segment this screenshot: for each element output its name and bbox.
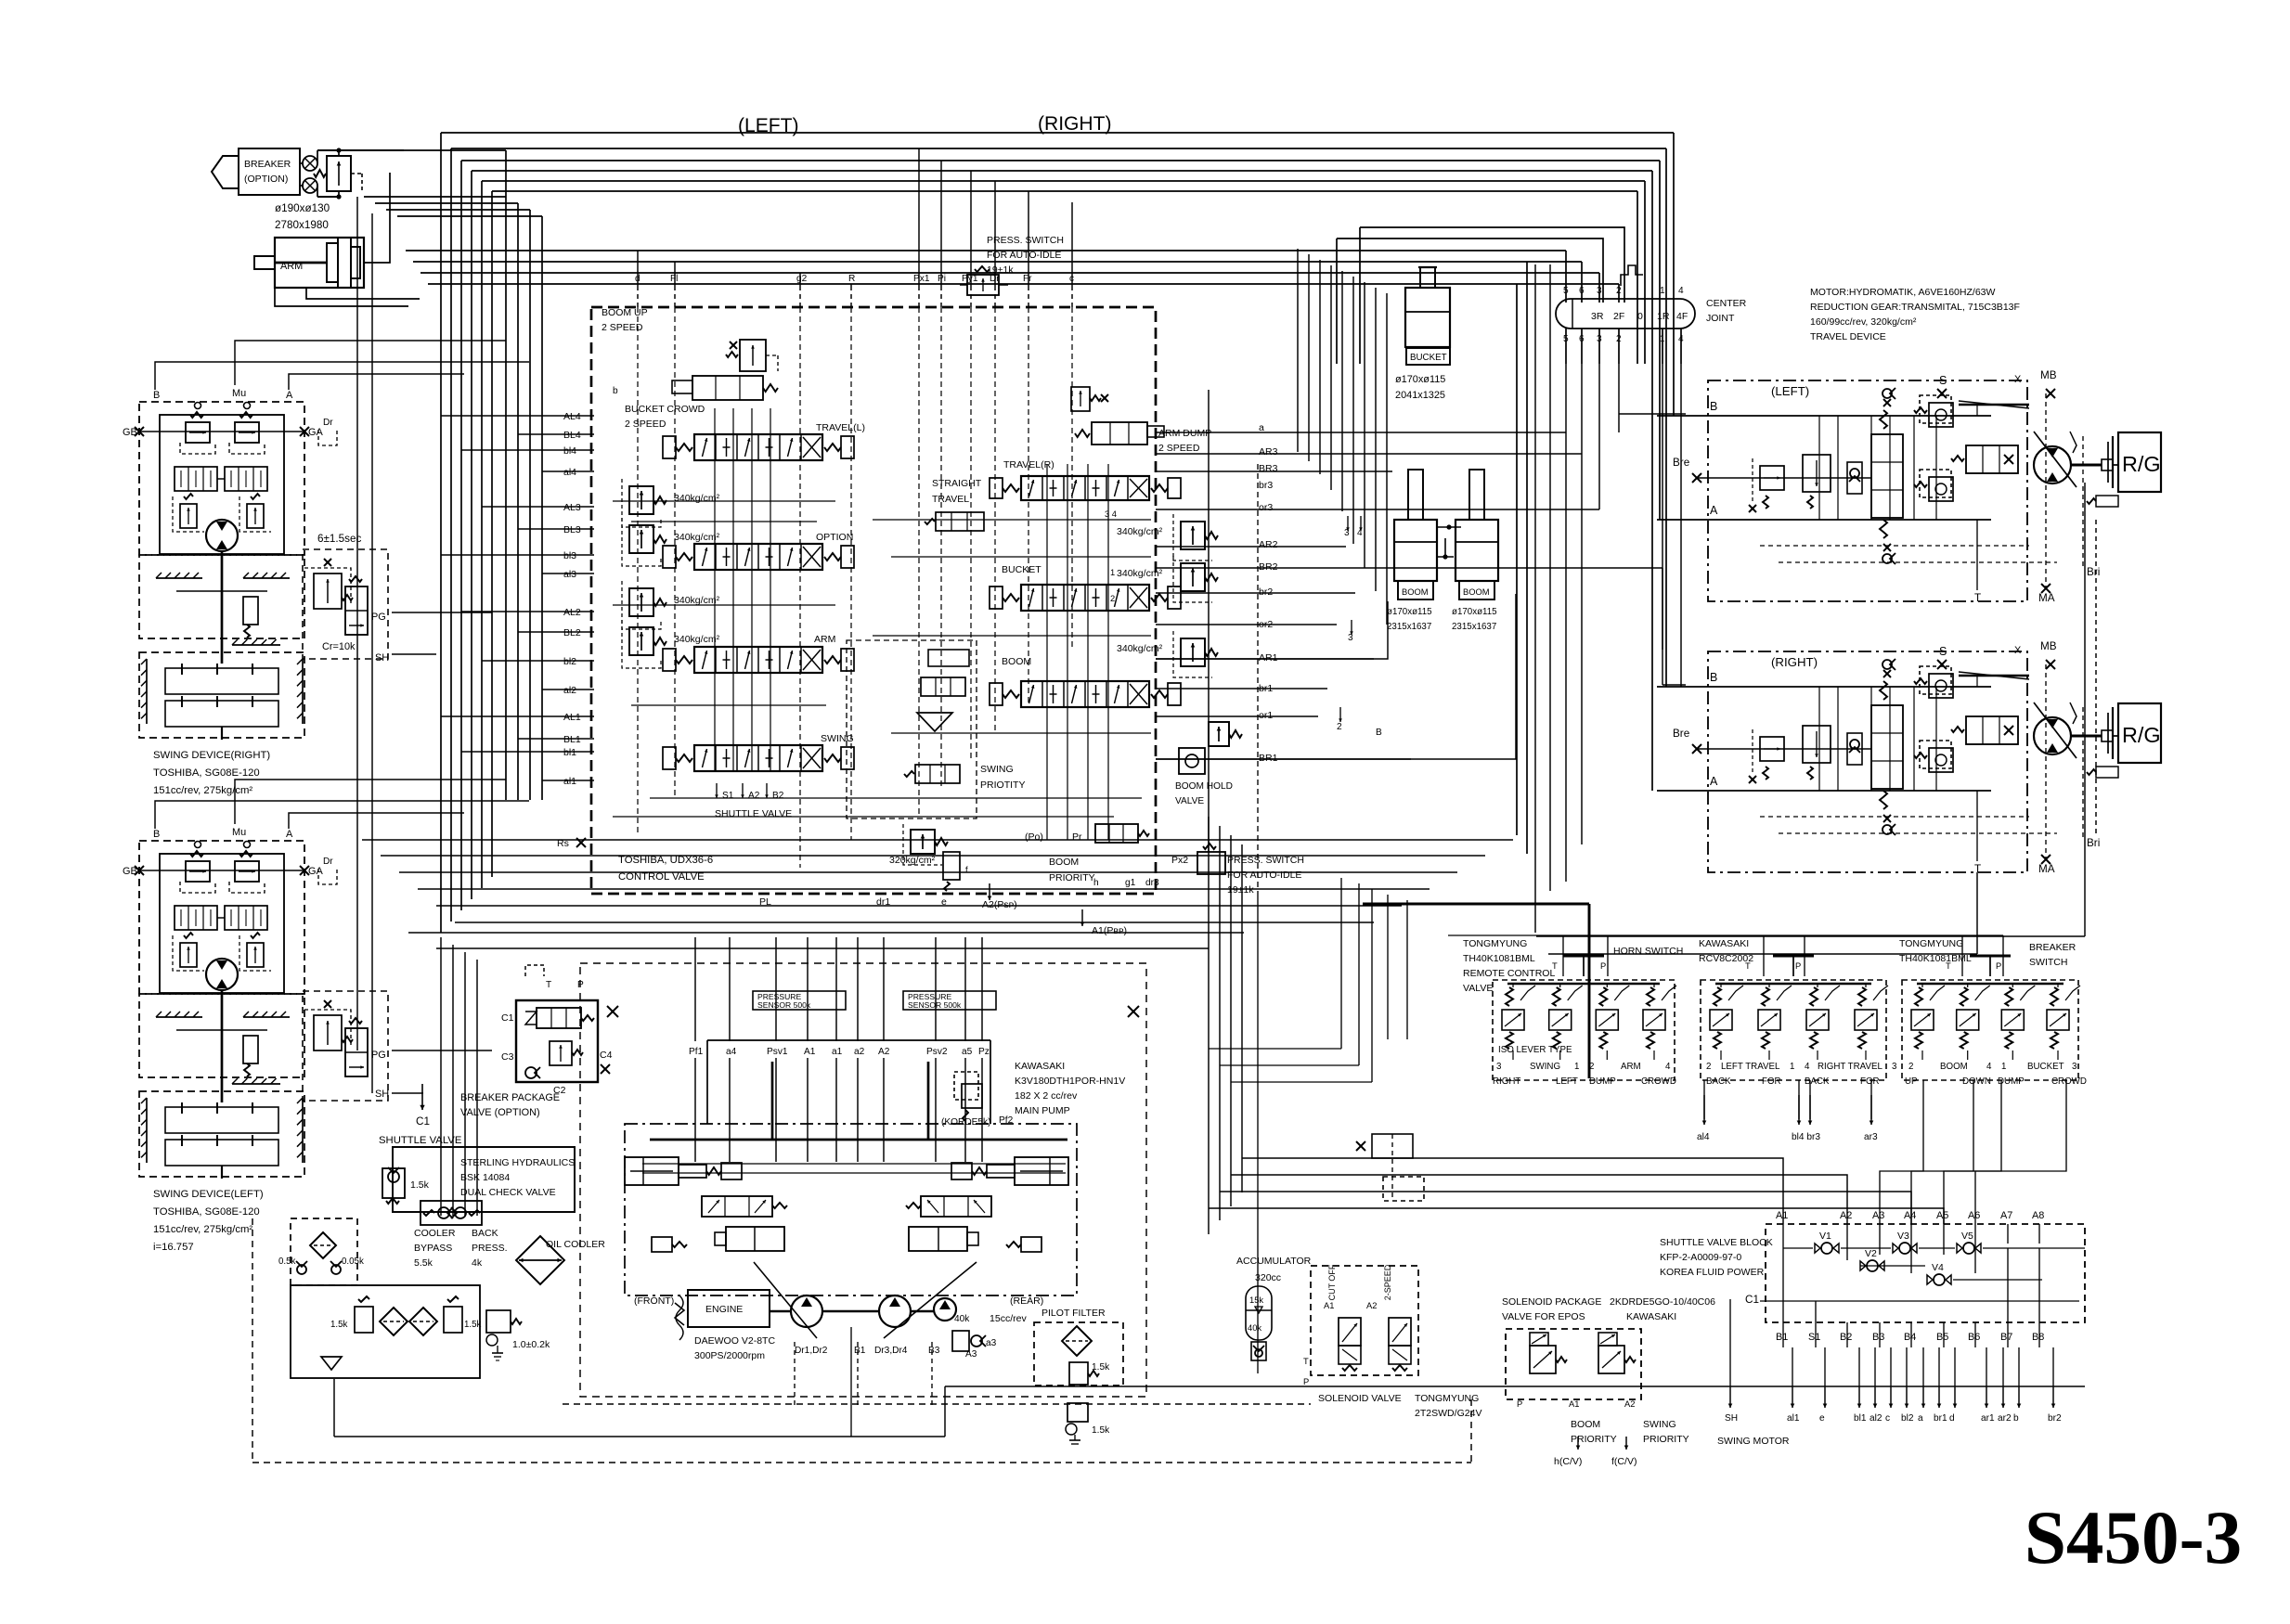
wire bundle upper-mid horizontals <box>406 250 1566 251</box>
svg-text:al1: al1 <box>563 776 576 787</box>
svg-text:or3: or3 <box>1259 502 1273 513</box>
svg-text:2 SPEED: 2 SPEED <box>1158 443 1200 454</box>
svg-text:bl3: bl3 <box>563 550 576 561</box>
wires center to rcv connectors <box>1209 1048 1341 1050</box>
svg-text:al3: al3 <box>563 569 576 580</box>
svg-text:BUCKET CROWD: BUCKET CROWD <box>625 404 705 415</box>
boom priority valve2 <box>1095 824 1138 843</box>
svg-text:4: 4 <box>1665 1062 1671 1072</box>
svg-text:0.05k: 0.05k <box>342 1257 364 1267</box>
svg-text:MA: MA <box>2038 863 2055 875</box>
svg-text:1.0±0.2k: 1.0±0.2k <box>512 1339 550 1350</box>
svg-text:PRIORITY: PRIORITY <box>1049 872 1095 883</box>
svg-text:AL4: AL4 <box>563 411 581 422</box>
svg-text:S1: S1 <box>1808 1332 1820 1343</box>
svg-text:KAWASAKI: KAWASAKI <box>1699 938 1749 949</box>
boom cylinder 2 <box>1456 520 1498 581</box>
svg-text:A: A <box>286 829 293 840</box>
svg-text:Mu: Mu <box>232 388 246 399</box>
svg-text:PRESS.: PRESS. <box>472 1243 508 1254</box>
svg-text:A1: A1 <box>1569 1399 1579 1409</box>
wire bundle top horizontals <box>441 132 1674 134</box>
svg-text:a3: a3 <box>986 1338 997 1348</box>
svg-text:TRAVEL(L): TRAVEL(L) <box>816 422 865 433</box>
svg-text:MA: MA <box>2038 592 2055 604</box>
svg-text:f(C/V): f(C/V) <box>1611 1456 1637 1467</box>
svg-text:T: T <box>1303 1357 1309 1366</box>
svg-text:e: e <box>1819 1413 1825 1424</box>
svg-text:T: T <box>1552 961 1558 971</box>
svg-text:T: T <box>546 980 551 990</box>
pump port box <box>707 1039 990 1041</box>
svg-text:bl2: bl2 <box>563 656 576 667</box>
svg-text:151cc/rev, 275kg/cm²: 151cc/rev, 275kg/cm² <box>153 785 252 796</box>
svg-text:B1: B1 <box>854 1346 866 1356</box>
svg-text:3 4: 3 4 <box>1105 509 1117 519</box>
svg-text:UP: UP <box>1905 1076 1918 1087</box>
svg-text:ARM: ARM <box>1621 1062 1641 1072</box>
wires pump port verticals <box>694 937 696 1041</box>
svg-text:15k: 15k <box>1249 1295 1263 1305</box>
svg-text:Bre: Bre <box>1673 728 1689 740</box>
svg-text:1: 1 <box>1660 286 1665 296</box>
svg-text:Dr: Dr <box>323 418 333 428</box>
swing priority valves <box>921 677 965 696</box>
svg-text:2 SPEED: 2 SPEED <box>625 419 666 430</box>
svg-text:T: T <box>1946 961 1951 971</box>
svg-text:AL2: AL2 <box>563 607 581 618</box>
svg-text:B: B <box>153 829 160 840</box>
svg-text:6±1.5sec: 6±1.5sec <box>317 533 362 545</box>
svg-text:SH: SH <box>375 1089 389 1100</box>
svg-text:1: 1 <box>1110 568 1115 577</box>
svg-text:Bri: Bri <box>2087 837 2100 849</box>
svg-text:A2: A2 <box>1624 1399 1635 1409</box>
svg-text:BL3: BL3 <box>563 524 581 535</box>
travel device (RIGHT) <box>1708 651 2027 872</box>
svg-text:1.5k: 1.5k <box>410 1179 430 1191</box>
svg-text:(RIGHT): (RIGHT) <box>1038 113 1112 135</box>
svg-text:B4: B4 <box>1904 1332 1916 1343</box>
svg-text:SWING: SWING <box>1530 1062 1560 1072</box>
svg-text:R/G: R/G <box>2122 723 2161 747</box>
svg-text:KAWASAKI: KAWASAKI <box>1015 1061 1065 1072</box>
svg-text:2041x1325: 2041x1325 <box>1395 390 1445 401</box>
svg-text:CONTROL VALVE: CONTROL VALVE <box>618 871 705 883</box>
svg-text:BUCKET: BUCKET <box>1410 353 1447 363</box>
svg-text:182 X 2 cc/rev: 182 X 2 cc/rev <box>1015 1090 1078 1102</box>
svg-text:ISO LEVER TYPE: ISO LEVER TYPE <box>1498 1045 1572 1055</box>
svg-text:BOOM: BOOM <box>1402 587 1429 597</box>
arm cylinder wires <box>364 173 390 263</box>
svg-text:TONGMYUNG: TONGMYUNG <box>1415 1393 1479 1404</box>
svg-text:SWING: SWING <box>1643 1419 1676 1430</box>
svg-text:b: b <box>2013 1413 2019 1424</box>
svg-text:A: A <box>1710 775 1718 788</box>
straight travel valve <box>936 512 984 531</box>
svg-text:3: 3 <box>1597 286 1602 296</box>
svg-text:3: 3 <box>2072 1062 2077 1072</box>
svg-text:2: 2 <box>1337 722 1342 732</box>
R/G box right <box>2118 703 2161 763</box>
svg-text:3: 3 <box>1348 633 1353 643</box>
svg-text:A2: A2 <box>1366 1301 1377 1310</box>
svg-text:al2: al2 <box>1870 1413 1882 1424</box>
wires shuttle block bottom <box>1782 1322 1784 1347</box>
svg-text:300PS/2000rpm: 300PS/2000rpm <box>694 1350 765 1361</box>
svg-text:BOOM: BOOM <box>1002 656 1031 667</box>
svg-text:bl1: bl1 <box>563 747 576 758</box>
svg-text:X: X <box>2014 645 2022 656</box>
svg-text:CROWD: CROWD <box>2051 1076 2087 1087</box>
svg-text:BOOM HOLD: BOOM HOLD <box>1175 781 1233 792</box>
svg-text:br3: br3 <box>1259 480 1273 491</box>
R/G box left <box>2118 432 2161 492</box>
svg-text:SH: SH <box>375 652 389 664</box>
svg-text:BL1: BL1 <box>563 734 581 745</box>
svg-text:BR2: BR2 <box>1259 561 1278 573</box>
svg-text:320cc: 320cc <box>1255 1272 1281 1283</box>
svg-text:BYPASS: BYPASS <box>414 1243 452 1254</box>
svg-text:2: 2 <box>1616 286 1622 296</box>
svg-text:3: 3 <box>1892 1062 1896 1072</box>
svg-text:a5: a5 <box>962 1047 973 1057</box>
svg-text:PRESS. SWITCH: PRESS. SWITCH <box>1227 855 1304 866</box>
breaker (option) box <box>239 148 300 195</box>
svg-text:BL4: BL4 <box>563 430 581 441</box>
svg-text:4: 4 <box>1357 528 1363 538</box>
svg-text:340kg/cm²: 340kg/cm² <box>1117 643 1163 654</box>
svg-text:C1: C1 <box>501 1012 514 1024</box>
svg-text:BACK: BACK <box>472 1228 498 1239</box>
svg-text:T: T <box>1745 961 1751 971</box>
svg-text:P: P <box>1600 961 1606 971</box>
svg-text:B3: B3 <box>1872 1332 1884 1343</box>
svg-text:a1: a1 <box>832 1047 843 1057</box>
svg-text:SWITCH: SWITCH <box>2029 957 2067 968</box>
svg-text:(REAR): (REAR) <box>1010 1295 1043 1307</box>
svg-text:BUCKET: BUCKET <box>1002 564 1041 575</box>
svg-text:bl4: bl4 <box>563 445 576 457</box>
svg-text:B8: B8 <box>2032 1332 2044 1343</box>
svg-text:Fr: Fr <box>1023 274 1032 284</box>
svg-text:g2: g2 <box>796 274 808 284</box>
svg-text:3: 3 <box>1496 1062 1501 1072</box>
pump circle 2 <box>879 1295 911 1327</box>
breaker gauge circles <box>303 156 317 171</box>
svg-text:Pf2: Pf2 <box>999 1115 1014 1126</box>
svg-text:CENTER: CENTER <box>1706 298 1747 309</box>
svg-text:Pz: Pz <box>978 1047 990 1057</box>
suction box <box>291 1285 480 1378</box>
front pump regulator <box>625 1157 679 1185</box>
solenoid valve box <box>1311 1266 1418 1375</box>
svg-text:T: T <box>1974 592 1981 604</box>
svg-text:340kg/cm²: 340kg/cm² <box>1117 526 1163 537</box>
svg-text:P: P <box>1996 961 2001 971</box>
svg-text:br2: br2 <box>1259 586 1273 598</box>
svg-text:SENSOR 500k: SENSOR 500k <box>908 1000 962 1010</box>
wires left bundle to valve ports <box>441 415 594 417</box>
svg-text:B6: B6 <box>1968 1332 1980 1343</box>
svg-text:b: b <box>613 386 618 396</box>
wires control valve to right <box>1156 432 1566 433</box>
wires swing device tops <box>155 362 529 390</box>
rcv2 cluster <box>1701 980 1886 1080</box>
svg-text:C3: C3 <box>501 1051 514 1063</box>
svg-text:5.5k: 5.5k <box>414 1257 433 1269</box>
svg-text:VALVE (OPTION): VALVE (OPTION) <box>460 1107 540 1118</box>
svg-text:BR3: BR3 <box>1259 463 1278 474</box>
svg-text:AL1: AL1 <box>563 712 581 723</box>
svg-text:A: A <box>1710 504 1718 517</box>
svg-text:SH: SH <box>1725 1413 1738 1424</box>
svg-text:A3: A3 <box>1872 1210 1884 1221</box>
svg-text:S: S <box>1939 645 1947 658</box>
svg-text:g1: g1 <box>1125 878 1136 888</box>
svg-text:3R: 3R <box>1591 311 1604 322</box>
320kg relief <box>911 830 935 854</box>
svg-text:40k: 40k <box>1248 1323 1261 1333</box>
svg-text:6: 6 <box>1579 286 1585 296</box>
svg-text:340kg/cm²: 340kg/cm² <box>674 595 720 606</box>
svg-text:340kg/cm²: 340kg/cm² <box>674 634 720 645</box>
svg-text:2 SPEED: 2 SPEED <box>602 322 643 333</box>
svg-text:al2: al2 <box>563 685 576 696</box>
wires below center joint <box>1565 329 1567 882</box>
svg-text:SOLENOID PACKAGE: SOLENOID PACKAGE <box>1502 1296 1601 1308</box>
svg-text:B: B <box>1710 400 1717 413</box>
wires cv ports to top bundle <box>637 251 639 286</box>
svg-text:3: 3 <box>1344 528 1350 538</box>
svg-text:MB: MB <box>2040 369 2057 381</box>
svg-text:CUT OFF: CUT OFF <box>1327 1264 1337 1300</box>
svg-text:a4: a4 <box>726 1047 737 1057</box>
prop valve boom <box>1530 1333 1548 1346</box>
svg-text:SWING DEVICE(LEFT): SWING DEVICE(LEFT) <box>153 1189 264 1200</box>
svg-text:ACCUMULATOR: ACCUMULATOR <box>1236 1256 1312 1267</box>
svg-text:A2: A2 <box>878 1047 890 1057</box>
pilot relief <box>952 1331 969 1351</box>
svg-text:A1: A1 <box>804 1047 816 1057</box>
svg-text:BACK: BACK <box>1706 1076 1731 1087</box>
control valve interior wires <box>637 307 639 835</box>
center joint <box>1556 299 1695 329</box>
svg-text:Dr: Dr <box>323 857 333 867</box>
svg-text:GA: GA <box>308 427 323 438</box>
svg-text:(LEFT): (LEFT) <box>1771 384 1809 398</box>
svg-text:A8: A8 <box>2032 1210 2044 1221</box>
svg-text:REMOTE CONTROL: REMOTE CONTROL <box>1463 968 1555 979</box>
svg-text:1R: 1R <box>1657 311 1670 322</box>
arm dump relief <box>1071 387 1090 411</box>
pilot pump <box>934 1298 956 1321</box>
svg-text:B2: B2 <box>772 791 784 801</box>
rear pump regulator <box>906 1157 1068 1252</box>
svg-text:ø170xø115: ø170xø115 <box>1395 374 1445 385</box>
svg-text:i=16.757: i=16.757 <box>153 1242 194 1253</box>
svg-text:Px1: Px1 <box>913 274 930 284</box>
svg-text:B3: B3 <box>928 1346 940 1356</box>
svg-text:al4: al4 <box>1697 1132 1710 1142</box>
svg-text:h(C/V): h(C/V) <box>1554 1456 1582 1467</box>
right bank port relief valves <box>1181 522 1205 549</box>
svg-text:BACK: BACK <box>1805 1076 1830 1087</box>
svg-text:V1: V1 <box>1819 1231 1831 1242</box>
svg-text:2: 2 <box>1110 594 1115 603</box>
svg-text:SHUTTLE VALVE: SHUTTLE VALVE <box>379 1135 462 1146</box>
svg-text:(RIGHT): (RIGHT) <box>1771 655 1818 669</box>
svg-text:5: 5 <box>1563 286 1569 296</box>
svg-text:FOR: FOR <box>1762 1076 1781 1087</box>
svg-text:JOINT: JOINT <box>1706 313 1735 324</box>
sterling dual check box <box>393 1147 575 1212</box>
svg-text:A: A <box>286 390 293 401</box>
svg-text:BSK 14084: BSK 14084 <box>460 1172 510 1183</box>
svg-text:a2: a2 <box>854 1047 865 1057</box>
svg-text:SWING MOTOR: SWING MOTOR <box>1717 1436 1790 1447</box>
svg-text:K3V180DTH1POR-HN1V: K3V180DTH1POR-HN1V <box>1015 1076 1125 1087</box>
svg-text:A6: A6 <box>1968 1210 1980 1221</box>
svg-text:LEFT: LEFT <box>1556 1076 1578 1087</box>
svg-text:V2: V2 <box>1865 1248 1877 1259</box>
svg-text:A5: A5 <box>1936 1210 1948 1221</box>
svg-text:0.5k: 0.5k <box>278 1257 296 1267</box>
svg-text:Px2: Px2 <box>1171 855 1188 866</box>
svg-text:KAWASAKI: KAWASAKI <box>1626 1311 1676 1322</box>
svg-text:ø190xø130: ø190xø130 <box>275 202 330 214</box>
svg-text:PILOT FILTER: PILOT FILTER <box>1041 1308 1106 1319</box>
solenoid cut off <box>1339 1318 1361 1346</box>
solenoid 2-speed <box>1389 1318 1411 1346</box>
1.5k check valve <box>382 1168 405 1198</box>
svg-text:2: 2 <box>1908 1062 1913 1072</box>
svg-text:TRAVEL DEVICE: TRAVEL DEVICE <box>1810 331 1886 342</box>
svg-text:BOOM: BOOM <box>1463 587 1490 597</box>
svg-text:ARM DUMP: ARM DUMP <box>1158 428 1211 439</box>
svg-text:P: P <box>1303 1377 1309 1386</box>
svg-text:A1(Pʙᴘ): A1(Pʙᴘ) <box>1092 925 1127 936</box>
svg-text:BOOM: BOOM <box>1940 1062 1968 1072</box>
svg-text:V3: V3 <box>1897 1231 1909 1242</box>
C1 shuttle valve label <box>421 1084 423 1110</box>
svg-text:TRAVEL(R): TRAVEL(R) <box>1003 459 1054 470</box>
wires mid horizontals <box>362 839 1513 841</box>
svg-text:1.5k: 1.5k <box>330 1320 348 1330</box>
svg-text:15cc/rev: 15cc/rev <box>990 1313 1027 1324</box>
svg-text:MB: MB <box>2040 640 2057 652</box>
svg-text:340kg/cm²: 340kg/cm² <box>1117 568 1163 579</box>
svg-text:S: S <box>1939 374 1947 387</box>
svg-text:KOREA FLUID POWER: KOREA FLUID POWER <box>1660 1267 1765 1278</box>
svg-text:B: B <box>1376 728 1382 738</box>
wire bundle left verticals <box>440 133 442 933</box>
svg-text:B5: B5 <box>1936 1332 1948 1343</box>
rcv pilot supply wires <box>1363 903 1589 906</box>
wires travel returns <box>1536 935 2085 937</box>
svg-text:BL2: BL2 <box>563 627 581 638</box>
svg-text:c: c <box>1885 1413 1890 1424</box>
wires center-bottom verticals <box>1208 817 1210 1234</box>
wires rcv to shuttle block <box>1703 1080 1705 1119</box>
svg-text:AL3: AL3 <box>563 502 581 513</box>
svg-text:RIGHT: RIGHT <box>1493 1076 1520 1087</box>
svg-text:TOSHIBA, UDX36-6: TOSHIBA, UDX36-6 <box>618 855 713 866</box>
control valve outer dashed box <box>591 307 1156 894</box>
svg-text:br2: br2 <box>2048 1413 2062 1424</box>
svg-text:SOLENOID VALVE: SOLENOID VALVE <box>1318 1393 1402 1404</box>
svg-text:dr3: dr3 <box>1145 878 1159 888</box>
svg-text:MAIN PUMP: MAIN PUMP <box>1015 1105 1070 1116</box>
svg-text:S450-3: S450-3 <box>2025 1496 2242 1579</box>
svg-text:4: 4 <box>1678 286 1684 296</box>
svg-text:TONGMYUNG: TONGMYUNG <box>1899 938 1963 949</box>
svg-text:A1: A1 <box>1324 1301 1334 1310</box>
svg-text:40k: 40k <box>954 1314 970 1324</box>
swing device (left) <box>139 841 304 994</box>
center joint stubs <box>1565 329 1567 364</box>
svg-text:(FRONT): (FRONT) <box>634 1295 674 1307</box>
svg-text:bl4 br3: bl4 br3 <box>1792 1132 1820 1142</box>
svg-text:LEFT TRAVEL: LEFT TRAVEL <box>1721 1062 1780 1072</box>
solenoid package box <box>1506 1329 1641 1399</box>
svg-text:ARM: ARM <box>814 634 835 645</box>
svg-text:STRAIGHT: STRAIGHT <box>932 478 982 489</box>
breaker (option) chisel symbol <box>212 156 239 188</box>
svg-text:V4: V4 <box>1932 1262 1944 1273</box>
pump circle 1 <box>791 1295 822 1327</box>
svg-text:320kg/cm²: 320kg/cm² <box>889 855 936 866</box>
svg-text:2315x1637: 2315x1637 <box>1387 622 1431 632</box>
svg-text:or1: or1 <box>1259 710 1273 721</box>
svg-text:ar2: ar2 <box>1998 1413 2012 1424</box>
svg-text:h: h <box>1093 878 1099 888</box>
svg-text:BUCKET: BUCKET <box>2027 1062 2064 1072</box>
rcv1 cluster <box>1493 980 1675 1080</box>
svg-text:151cc/rev, 275kg/cm²: 151cc/rev, 275kg/cm² <box>153 1224 252 1235</box>
svg-text:TOSHIBA, SG08E-120: TOSHIBA, SG08E-120 <box>153 767 260 779</box>
wires center vertical bundle <box>1297 249 1299 452</box>
bucket cylinder <box>1405 288 1450 347</box>
svg-text:OIL COOLER: OIL COOLER <box>546 1239 605 1250</box>
control valve top port stubs <box>637 286 639 307</box>
left bank port relief valves <box>629 486 653 514</box>
pump drive tilt lines <box>754 1262 817 1338</box>
svg-text:SWING DEVICE(RIGHT): SWING DEVICE(RIGHT) <box>153 750 270 761</box>
svg-text:4: 4 <box>1805 1062 1810 1072</box>
svg-text:DAEWOO V2-8TC: DAEWOO V2-8TC <box>694 1335 775 1347</box>
svg-text:A2: A2 <box>748 791 760 801</box>
svg-text:0: 0 <box>1637 311 1643 322</box>
svg-text:PRIORITY: PRIORITY <box>1643 1434 1689 1445</box>
svg-text:TRAVEL: TRAVEL <box>932 494 969 505</box>
svg-text:340kg/cm²: 340kg/cm² <box>674 493 720 504</box>
travel device (LEFT) <box>1708 380 2027 601</box>
svg-text:1.5k: 1.5k <box>1092 1425 1110 1436</box>
svg-text:R: R <box>848 274 855 284</box>
svg-text:P: P <box>1517 1399 1522 1409</box>
engine fan <box>675 1303 684 1325</box>
arm cylinder <box>275 238 364 288</box>
svg-text:AR1: AR1 <box>1259 652 1278 664</box>
svg-text:X: X <box>2014 374 2022 385</box>
wires travel feeds <box>1619 413 1686 415</box>
svg-text:2F: 2F <box>1613 311 1624 322</box>
svg-text:BR1: BR1 <box>1259 753 1278 764</box>
svg-text:PRESS. SWITCH: PRESS. SWITCH <box>987 235 1064 246</box>
svg-text:1: 1 <box>2001 1062 2006 1072</box>
arm dump 2 speed valve <box>1092 422 1147 445</box>
